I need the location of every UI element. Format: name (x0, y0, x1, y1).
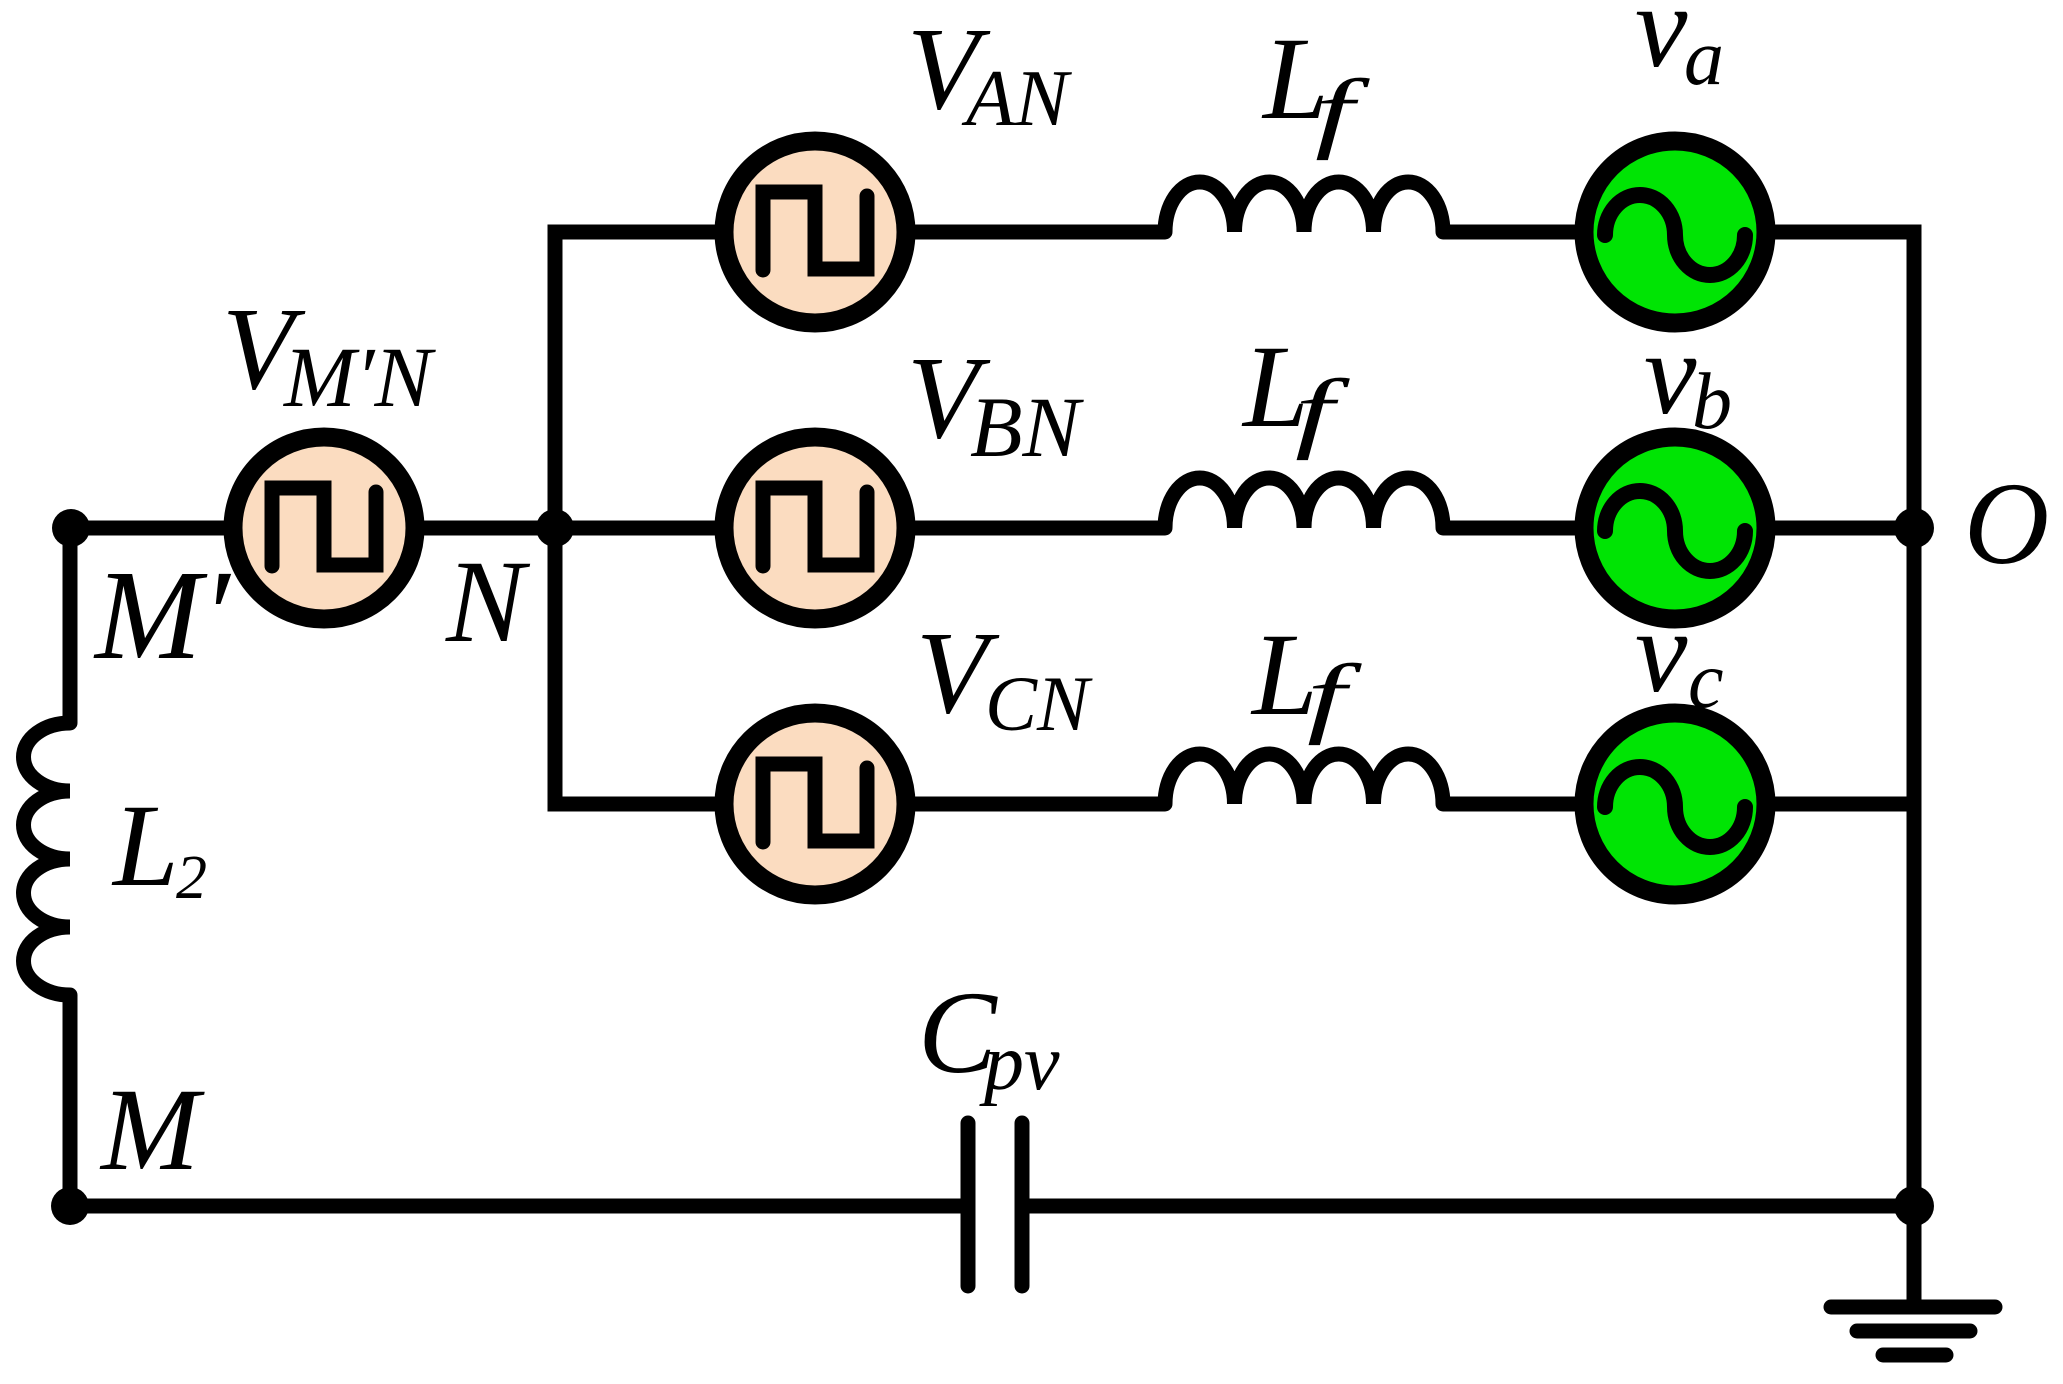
svg-text:M: M (99, 1064, 205, 1195)
wire node N vertical + top/bottom branch left (555, 232, 1165, 804)
svg-text:CN: CN (985, 660, 1093, 747)
wire top branch right + right vertical + ground stem (1443, 232, 1914, 1303)
sine source vc (1584, 713, 1766, 895)
svg-text:2: 2 (176, 844, 207, 912)
svg-text:M′: M′ (93, 544, 232, 686)
label L2 (111, 780, 207, 912)
sine source va (1584, 141, 1766, 323)
label VCN (916, 607, 1093, 747)
svg-text:O: O (1964, 458, 2049, 589)
svg-text:AN: AN (961, 55, 1073, 143)
inductor Lf middle (1165, 478, 1443, 528)
sine source vb (1584, 437, 1766, 619)
label Lf middle (1241, 321, 1351, 461)
inductor Lf top (1165, 182, 1443, 232)
node M' dot (52, 509, 90, 547)
node O dot (1894, 508, 1934, 548)
label vc (1635, 586, 1724, 725)
svg-text:pv: pv (979, 1019, 1060, 1107)
svg-text:c: c (1688, 637, 1724, 725)
square source VBN (724, 437, 906, 619)
wire bottom branch right (1443, 797, 1914, 812)
square source VM'N (233, 437, 415, 619)
square source VCN (724, 713, 906, 895)
svg-text:a: a (1684, 14, 1724, 102)
svg-text:M′N: M′N (282, 329, 436, 425)
label VAN (907, 3, 1073, 143)
svg-text:v: v (1644, 308, 1697, 439)
inductor Lf bottom (1165, 754, 1443, 804)
svg-text:BN: BN (970, 379, 1085, 475)
svg-text:f: f (1315, 61, 1371, 161)
label VBN (907, 332, 1085, 475)
ground (1831, 1307, 1995, 1355)
label Cpv (918, 967, 1060, 1107)
svg-text:b: b (1692, 358, 1732, 446)
node N dot (536, 509, 574, 547)
svg-text:N: N (445, 536, 531, 667)
wire left vertical lower (L2 to M) (63, 995, 78, 1206)
wire left vertical upper (M' to L2) (63, 528, 78, 723)
svg-text:L: L (111, 780, 179, 911)
wire middle branch right (Lf to O) (1443, 521, 1914, 536)
label Lf bottom (1250, 609, 1363, 746)
node M dot (51, 1187, 89, 1225)
svg-text:f: f (1295, 361, 1351, 461)
svg-text:f: f (1307, 646, 1363, 746)
square source VAN (724, 141, 906, 323)
wire bottom left (M to Cpv) (70, 1199, 961, 1214)
svg-text:v: v (1635, 0, 1688, 92)
label vb (1644, 308, 1732, 446)
capacitor Cpv (968, 1123, 1022, 1286)
label va (1635, 0, 1724, 102)
label VM'N (222, 283, 436, 425)
svg-text:v: v (1635, 586, 1688, 717)
label Lf top (1261, 13, 1371, 161)
inductor L2 (24, 723, 71, 995)
wire middle branch left (M' to Lf) (71, 521, 1165, 536)
wire bottom right (Cpv to ground node) (1029, 1199, 1914, 1214)
ground node dot (1894, 1186, 1934, 1226)
